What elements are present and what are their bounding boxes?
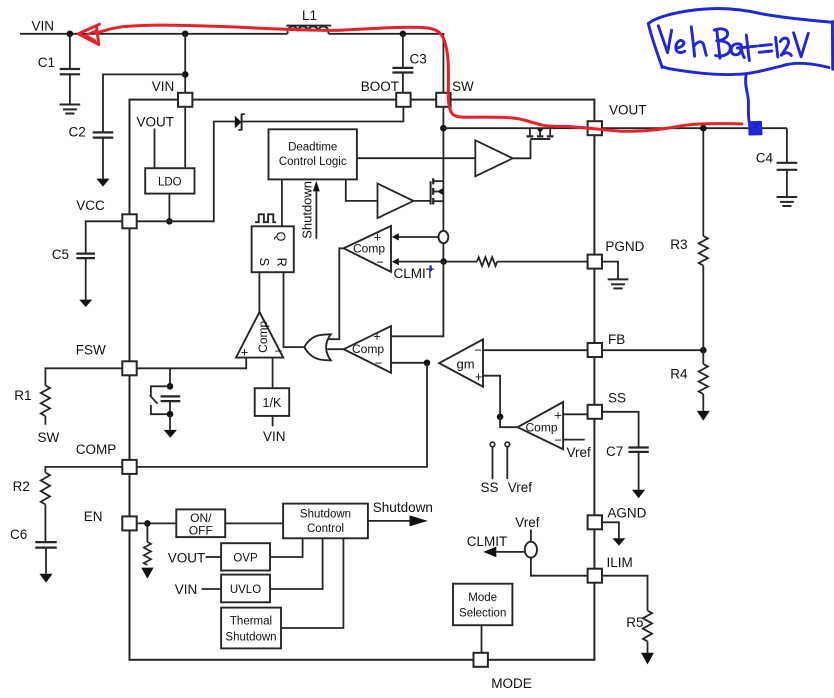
svg-text:VOUT: VOUT: [168, 551, 206, 566]
svg-text:C2: C2: [69, 125, 86, 140]
capacitor C5: [76, 253, 95, 255]
svg-text:Vref: Vref: [515, 515, 540, 530]
wire comp2 out to OR gate: [328, 248, 344, 339]
op-amp gm error amp: [439, 339, 483, 386]
ground AGND arrow: [602, 522, 619, 538]
ground C2 arrow: [96, 179, 109, 187]
wire comp3 plus from sense: [391, 262, 443, 337]
wire FSW to R1: [45, 368, 122, 385]
svg-text:SS: SS: [481, 480, 499, 495]
wire ramp branch: [169, 368, 171, 386]
svg-text:−: −: [554, 432, 562, 447]
wire SS to C7: [602, 412, 639, 447]
resistor sense PGND: [444, 261, 477, 263]
junction EN pulldown: [144, 520, 151, 527]
junction selector: [497, 414, 504, 421]
diode D1 bootstrap: [235, 116, 242, 129]
svg-text:ILIM: ILIM: [607, 555, 633, 570]
annotation red wire highlight: [96, 25, 742, 131]
wire comp3 out to OR gate: [327, 348, 343, 350]
svg-text:+: +: [373, 329, 381, 344]
svg-text:Shutdown: Shutdown: [300, 181, 315, 239]
signal Shutdown output: [368, 520, 410, 522]
wire SW node to VOUT pin: [443, 127, 587, 129]
wire SW rail vertical: [442, 107, 444, 231]
wire 1/K to VIN: [272, 416, 274, 427]
svg-text:VIN: VIN: [175, 582, 198, 597]
ground PGND: [602, 262, 618, 279]
block OVP: [221, 543, 270, 570]
svg-text:Deadtime: Deadtime: [288, 142, 337, 154]
block 1/K: [255, 388, 290, 416]
svg-text:Comp: Comp: [525, 421, 557, 435]
wire selector to comp4: [500, 417, 517, 427]
svg-text:SW: SW: [38, 430, 60, 445]
switch ramp reset: [151, 386, 170, 395]
wire ILIM to R5: [602, 576, 647, 611]
svg-text:C7: C7: [606, 444, 623, 459]
svg-text:Selection: Selection: [459, 608, 506, 620]
wire gm minus to FB: [483, 349, 588, 351]
block ON/OFF: [176, 509, 225, 537]
svg-text:VCC: VCC: [76, 198, 105, 213]
wire OVP to shutdown control: [270, 538, 303, 557]
pin AGND: [588, 515, 602, 529]
wire comp3 minus node: [391, 362, 427, 364]
capacitor C6: [35, 541, 57, 543]
resistor R4: [702, 350, 704, 364]
svg-text:L1: L1: [302, 8, 317, 23]
svg-text:LDO: LDO: [158, 177, 182, 189]
wire VIN input rail: [20, 33, 288, 35]
pin SS: [588, 405, 602, 419]
op-amp Comp4 soft start: [518, 402, 564, 449]
svg-text:Mode: Mode: [468, 592, 497, 604]
svg-text:Comp: Comp: [352, 342, 384, 356]
junction C3 tap: [400, 31, 407, 38]
pin VOUT: [588, 121, 602, 135]
inductor L1: [286, 25, 331, 27]
block Deadtime Control Logic: [269, 129, 357, 179]
svg-text:UVLO: UVLO: [230, 584, 261, 596]
annotation blue endpoint scribble: [750, 122, 762, 134]
wire latch Q to deadtime: [281, 179, 283, 226]
wire mode to MODE pin: [481, 625, 483, 653]
svg-text:CLMIT: CLMIT: [394, 266, 435, 281]
annotation blue leader line: [746, 76, 750, 123]
svg-text:EN: EN: [84, 509, 103, 524]
svg-text:1/K: 1/K: [263, 396, 282, 410]
junction comp3 minus: [424, 360, 431, 367]
wire VOUT rail: [602, 127, 787, 129]
pin EN: [122, 516, 136, 530]
block Mode Selection: [453, 584, 512, 626]
svg-text:R4: R4: [670, 367, 688, 382]
wire CLMIT to comp2 minus: [399, 261, 444, 263]
wire VCC rail: [137, 122, 235, 222]
svg-text:C6: C6: [10, 527, 27, 542]
wire diode to BOOT: [242, 107, 404, 122]
svg-text:Control Logic: Control Logic: [279, 156, 347, 168]
arrow CLMIT out: [496, 551, 525, 553]
svg-text:+: +: [554, 407, 562, 422]
svg-text:gm: gm: [456, 356, 474, 371]
wire sense to comp2 plus: [399, 236, 439, 238]
wire FSW to comp1 plus: [137, 358, 246, 369]
pin FB: [588, 343, 602, 357]
junction ramp bottom: [167, 411, 174, 418]
wire comp4 minus Vref: [563, 439, 585, 441]
wire VCC to C5: [86, 221, 123, 253]
pin COMP: [122, 460, 136, 474]
wire VIN pin to LDO: [184, 107, 186, 168]
svg-text:−: −: [376, 254, 384, 269]
svg-text:Control: Control: [307, 523, 344, 535]
pin MODE: [474, 653, 488, 667]
buffer U3 lowside driver: [378, 184, 414, 219]
current source Vref CLMIT: [525, 542, 537, 558]
ground EN arrow: [141, 568, 153, 579]
svg-text:VOUT: VOUT: [609, 103, 647, 118]
block Thermal Shutdown: [221, 608, 281, 649]
svg-text:VIN: VIN: [32, 19, 55, 34]
junction FB divider: [700, 347, 707, 354]
capacitor ramp: [161, 395, 181, 397]
wire C2 branch: [103, 74, 185, 131]
junction VIN pin tap: [182, 31, 189, 38]
wire gm plus to selector: [483, 376, 500, 417]
junction C2 tap: [182, 71, 189, 78]
ground C7 arrow: [632, 490, 645, 498]
junction VCC node: [166, 218, 173, 225]
wire EN input: [137, 522, 177, 524]
arrow comp2 minus: [392, 258, 399, 265]
block UVLO: [221, 575, 270, 603]
transistor Q1 highside: [530, 138, 550, 140]
junction R3 tap: [700, 125, 707, 132]
current sense CS1: [439, 231, 449, 243]
pin SW: [436, 93, 450, 107]
gate OR1: [304, 334, 331, 360]
svg-text:−: −: [275, 343, 283, 358]
resistor R3: [702, 128, 704, 236]
svg-text:VIN: VIN: [263, 429, 286, 444]
svg-text:S: S: [257, 258, 271, 266]
resistor R1: [41, 385, 50, 416]
svg-text:+: +: [475, 369, 483, 384]
buffer U2 highside driver: [475, 140, 512, 176]
svg-text:R: R: [275, 258, 289, 267]
pin BOOT: [396, 93, 410, 107]
svg-text:MODE: MODE: [491, 676, 532, 691]
ground C5 arrow: [79, 300, 92, 307]
wire FB to divider: [602, 349, 703, 351]
junction C1 tap: [67, 31, 74, 38]
wire buffer1 to HS gate: [513, 140, 531, 158]
capacitor C7: [628, 446, 648, 448]
svg-text:Q: Q: [274, 232, 288, 242]
junction CLMIT node: [440, 258, 447, 265]
svg-text:+: +: [241, 345, 249, 360]
pin VCC: [122, 214, 136, 228]
svg-text:VIN: VIN: [152, 79, 175, 94]
svg-text:−: −: [474, 343, 482, 358]
IC block outline: [130, 100, 595, 660]
svg-text:R5: R5: [626, 615, 643, 630]
capacitor C2: [93, 131, 114, 133]
svg-text:SS: SS: [608, 391, 626, 406]
wire Vref to source: [530, 530, 532, 542]
ground ramp arrow: [169, 414, 171, 430]
svg-text:FB: FB: [608, 332, 625, 347]
annotation red arrowhead: [78, 24, 99, 44]
svg-text:BOOT: BOOT: [361, 79, 399, 94]
svg-text:AGND: AGND: [607, 506, 646, 521]
resistor R5: [643, 611, 652, 642]
svg-text:C5: C5: [52, 247, 69, 262]
ground C6 arrow: [39, 574, 52, 583]
resistor R2: [41, 473, 50, 505]
pin VIN: [178, 93, 192, 107]
svg-text:OVP: OVP: [233, 552, 258, 564]
junction ramp top: [167, 383, 174, 390]
wire deadtime to buffer1: [357, 157, 475, 159]
junction SW rail: [440, 125, 447, 132]
wire comp4 plus to SS pin: [563, 413, 587, 415]
op-amp Comp3 PWM: [344, 326, 391, 373]
svg-text:CLMIT: CLMIT: [467, 534, 508, 549]
switch selector contacts: [490, 442, 495, 447]
capacitor C3: [402, 34, 404, 67]
ground R4 arrow: [697, 411, 710, 421]
svg-text:C1: C1: [38, 55, 55, 70]
svg-text:VOUT: VOUT: [137, 115, 175, 130]
svg-text:PGND: PGND: [605, 239, 644, 254]
wire LDO to VCC node: [168, 194, 170, 222]
ground C4: [777, 196, 798, 198]
capacitor C1: [69, 34, 71, 69]
svg-text:Shutdown: Shutdown: [373, 500, 433, 515]
svg-text:Vref: Vref: [567, 445, 592, 460]
wire comp1 minus to 1/K: [272, 358, 274, 389]
arrow comp2 plus: [392, 233, 399, 240]
svg-text:COMP: COMP: [76, 442, 117, 457]
transistor Q2 lowside: [430, 181, 432, 204]
annotation blue stray mark: [429, 266, 432, 270]
clock pulse symbol: [255, 214, 276, 222]
wire VIN pin drop: [184, 34, 186, 93]
block LDO: [145, 168, 194, 193]
svg-text:Vref: Vref: [508, 480, 533, 495]
svg-text:FSW: FSW: [76, 342, 106, 357]
svg-text:R3: R3: [670, 237, 687, 252]
annotation blue text Veh Bat=12V: [658, 26, 808, 61]
latch U4 SR: [252, 226, 294, 272]
svg-text:Thermal: Thermal: [230, 616, 272, 628]
svg-text:R2: R2: [13, 479, 30, 494]
svg-text:C4: C4: [756, 151, 774, 166]
svg-text:Comp: Comp: [256, 320, 270, 352]
op-amp Comp2 current limit: [344, 226, 391, 272]
wire OR to latch R: [284, 272, 305, 347]
wire thermal to shutdown control: [281, 538, 343, 628]
wire buffer2 to LS gate: [414, 200, 431, 202]
resistor EN pulldown: [146, 523, 148, 542]
svg-text:OFF: OFF: [189, 523, 213, 537]
wire ILIM to clmit source: [531, 558, 588, 576]
ground C1: [60, 104, 81, 106]
svg-text:−: −: [375, 355, 383, 370]
pin FSW: [122, 361, 136, 375]
wire deadtime to buffer2: [346, 179, 378, 201]
pin ILIM: [588, 569, 602, 583]
svg-text:Shutdown: Shutdown: [300, 509, 351, 521]
capacitor C4: [786, 128, 788, 162]
svg-text:SW: SW: [452, 79, 474, 94]
svg-text:Shutdown: Shutdown: [225, 632, 276, 644]
svg-text:+: +: [374, 229, 382, 244]
op-amp Comp1 oscillator: [236, 312, 283, 358]
annotation blue callout bubble: [648, 9, 832, 75]
svg-text:R1: R1: [14, 388, 31, 403]
wire sense to clmit node: [442, 243, 444, 261]
wire onoff to shutdown control: [225, 522, 283, 524]
wire COMP pin to comp3 minus: [137, 363, 427, 467]
svg-text:C3: C3: [410, 52, 427, 67]
wire COMP to R2: [45, 467, 122, 473]
pin PGND: [588, 255, 602, 269]
ground R5 arrow: [641, 653, 654, 665]
wire UVLO to shutdown control: [270, 538, 323, 589]
block Shutdown Control: [283, 504, 368, 539]
wire latch S from comp1: [258, 272, 260, 312]
